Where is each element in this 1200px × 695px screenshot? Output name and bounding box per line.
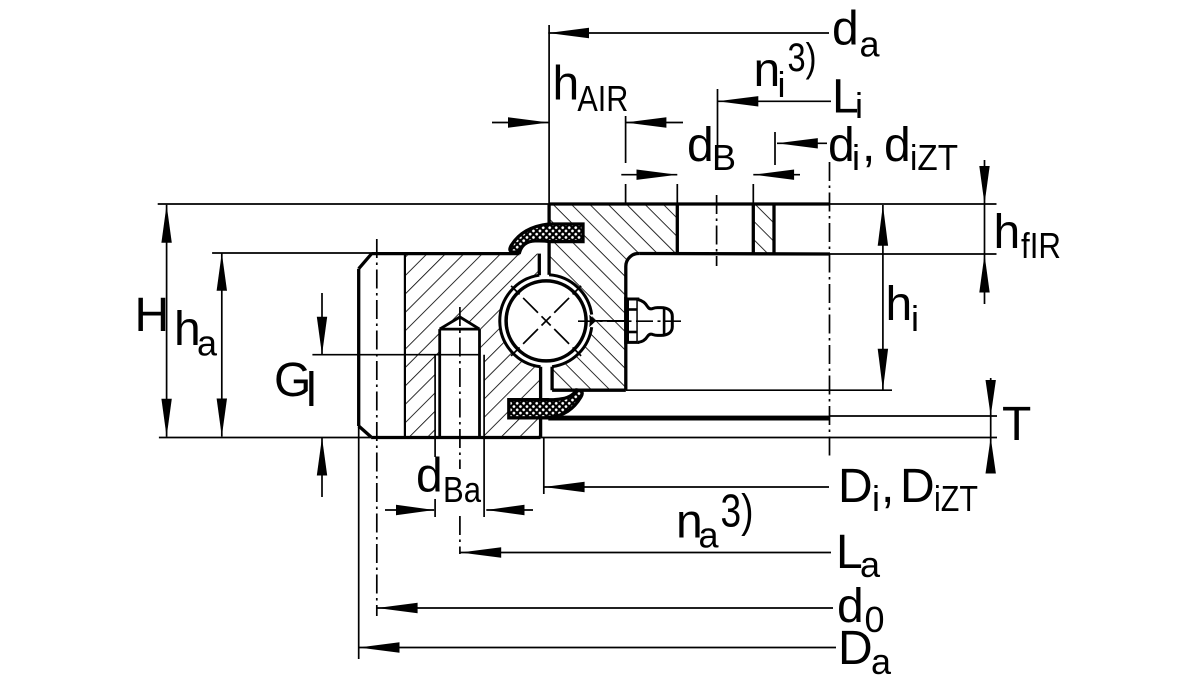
- arrowhead h_a bottom: [217, 399, 227, 437]
- D_i extension: [543, 438, 545, 495]
- bottom surface extensions: [159, 437, 371, 439]
- arrowhead D_a: [359, 642, 400, 652]
- svg-text:a: a: [860, 544, 881, 585]
- svg-text:h: h: [994, 206, 1021, 259]
- raceway white gap ring: [500, 275, 592, 367]
- svg-text:H: H: [135, 289, 170, 342]
- G hole cutout (white): [435, 317, 484, 438]
- grease passage: [595, 320, 626, 322]
- gap faces below ball: [539, 367, 542, 400]
- svg-text:,: ,: [862, 119, 875, 172]
- inner-ring bottom face extension: [626, 389, 892, 391]
- flange underside: [640, 252, 830, 256]
- svg-text:Ba: Ba: [443, 469, 482, 510]
- h_a extension: [212, 252, 372, 254]
- svg-text:a: a: [197, 323, 218, 364]
- arrowhead L_a: [460, 547, 501, 557]
- svg-text:h: h: [886, 278, 913, 331]
- inner ring flange top: [549, 202, 830, 205]
- d_B extensions: [676, 184, 678, 208]
- arrowhead T bottom: [986, 438, 996, 474]
- bolt hole walls: [676, 204, 679, 254]
- thread major diameter lines + d_Ba extensions: [434, 355, 436, 457]
- arrowhead h_AIR left: [508, 117, 549, 127]
- arrowhead h_i top: [878, 205, 888, 246]
- bottom seal: [509, 390, 582, 418]
- svg-text:D: D: [900, 460, 935, 513]
- svg-text:d: d: [832, 2, 859, 55]
- arrowhead G_l bottom: [317, 438, 327, 476]
- arrowhead D_i: [544, 482, 585, 492]
- gap faces above ball: [538, 254, 541, 276]
- arrowhead d_0: [377, 603, 418, 613]
- arrowhead h_AIR right: [626, 117, 667, 127]
- vertical dimension lines: [166, 205, 168, 437]
- outer-ring bolt circle axis: [376, 239, 378, 616]
- svg-text:a: a: [699, 515, 720, 556]
- strip top extension: [830, 415, 998, 417]
- svg-text:h: h: [553, 57, 580, 110]
- svg-text:d: d: [687, 119, 714, 172]
- arrowhead T top: [986, 380, 996, 416]
- arrowhead h_i bottom: [878, 349, 888, 391]
- svg-text:i: i: [778, 64, 786, 105]
- raceway arcs: [500, 275, 541, 367]
- svg-text:T: T: [1002, 398, 1031, 451]
- arrowhead H top: [161, 205, 171, 243]
- svg-text:i: i: [872, 478, 880, 519]
- arrowhead d_i: [777, 138, 818, 148]
- inner bore break line: [829, 162, 831, 456]
- svg-text:d: d: [884, 119, 911, 172]
- step face: [624, 267, 627, 391]
- svg-text:L: L: [836, 526, 863, 579]
- n_i hole axis: [716, 195, 718, 266]
- arrowhead d_a: [548, 28, 589, 38]
- arrowhead d_B right: [753, 170, 794, 180]
- arrowhead H bottom: [161, 399, 171, 437]
- H top extension line / flange top thin parts: [158, 203, 549, 205]
- svg-text:n: n: [754, 44, 781, 97]
- d_i extension: [774, 132, 776, 165]
- arrowhead G_l top: [317, 317, 327, 355]
- svg-text:3): 3): [721, 485, 754, 537]
- G hole: [438, 329, 441, 437]
- arrowhead h_fIR bottom: [979, 255, 989, 293]
- svg-text:AIR: AIR: [577, 78, 628, 119]
- outer ring section (hatched): [405, 254, 541, 438]
- arrowhead h_a top: [217, 253, 227, 291]
- arrowhead d_Ba right: [486, 505, 524, 515]
- L_i extension: [717, 89, 719, 160]
- svg-text:D: D: [838, 460, 873, 513]
- svg-text:i: i: [852, 137, 860, 178]
- svg-text:a: a: [871, 641, 892, 682]
- svg-text:d: d: [828, 119, 855, 172]
- svg-text:d: d: [416, 450, 443, 503]
- svg-text:fIR: fIR: [1021, 225, 1061, 266]
- inner ring bottom face: [552, 389, 626, 392]
- svg-text:l: l: [306, 364, 317, 417]
- d_a extension vertical: [548, 25, 550, 204]
- svg-text:B: B: [712, 137, 736, 178]
- svg-text:a: a: [860, 24, 881, 65]
- G_l thread-depth line: [312, 354, 480, 356]
- dimension lines: [548, 32, 829, 34]
- arrowhead d_B left: [637, 170, 678, 180]
- inner ring hatched strip right of bolt hole: [753, 204, 774, 254]
- restore inner-ring step face over nipple base: [624, 297, 627, 344]
- svg-text:3): 3): [788, 36, 817, 80]
- h_AIR right extension: [625, 116, 627, 163]
- top seal: [510, 224, 583, 253]
- svg-text:,: ,: [881, 460, 894, 513]
- G hole axis: [459, 307, 461, 469]
- svg-text:iZT: iZT: [934, 478, 978, 519]
- arrowhead h_fIR top: [979, 166, 989, 204]
- h_fIR lower extension: [830, 253, 997, 255]
- svg-text:i: i: [911, 298, 919, 339]
- svg-text:iZT: iZT: [910, 137, 958, 178]
- fillet: [626, 253, 640, 266]
- grease nipple axis: [578, 320, 681, 322]
- arrowhead L_i: [718, 96, 759, 106]
- inner ring section (hatched): [549, 204, 677, 390]
- arrowhead d_Ba left: [396, 505, 434, 515]
- ball crosshair: [511, 286, 581, 356]
- D_a extension (below chamfer): [358, 426, 360, 659]
- svg-text:D: D: [838, 622, 873, 675]
- outer ring outline: [357, 269, 360, 426]
